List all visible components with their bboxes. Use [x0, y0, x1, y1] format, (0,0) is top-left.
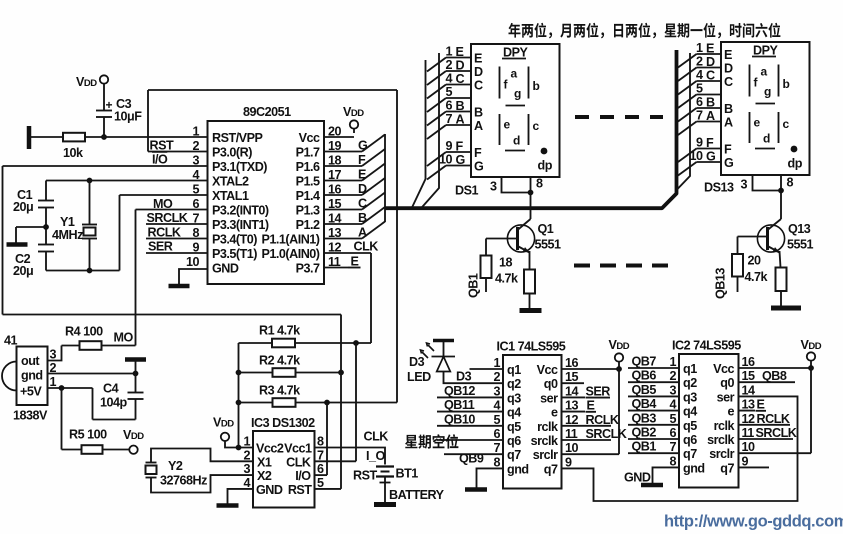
svg-text:G: G — [456, 153, 466, 167]
svg-text:D: D — [706, 55, 715, 69]
svg-text:8: 8 — [192, 226, 199, 240]
svg-text:c: c — [533, 119, 540, 133]
wire RST net vertical — [340, 315, 342, 489]
svg-text:1: 1 — [192, 125, 199, 139]
svg-text:QB12: QB12 — [444, 384, 475, 398]
battery BT1 — [376, 465, 394, 467]
svg-text:e: e — [754, 116, 761, 130]
wire DS1302 pin6 I/O — [315, 474, 328, 476]
svg-text:2: 2 — [669, 369, 676, 383]
svg-text:2: 2 — [243, 448, 250, 462]
transistor Q13 5551 — [757, 225, 784, 252]
wire CLK down to DS1302 pin7 — [355, 343, 357, 461]
svg-text:10: 10 — [565, 441, 579, 455]
svg-text:1: 1 — [669, 355, 676, 369]
svg-text:6: 6 — [669, 426, 676, 440]
terminal bar left — [27, 126, 32, 149]
svg-text:Y2: Y2 — [168, 459, 183, 473]
svg-text:P1.5: P1.5 — [296, 175, 320, 189]
svg-text:QB3: QB3 — [632, 411, 657, 425]
svg-text:P1.2: P1.2 — [296, 218, 320, 232]
resistor R2 4.7k — [236, 370, 242, 376]
svg-text:20μ: 20μ — [13, 200, 33, 214]
svg-text:5551: 5551 — [787, 238, 814, 252]
bus sheaf DS1 — [427, 58, 446, 72]
clock IC3 DS1302 — [253, 431, 315, 508]
wire DS1 pin8 to Q1 — [530, 177, 532, 219]
wire gnd stub — [16, 226, 46, 228]
svg-text:Vcc: Vcc — [299, 131, 320, 145]
svg-text:14: 14 — [565, 384, 579, 398]
svg-text:GND: GND — [256, 483, 283, 497]
wire DS1 pin3 — [502, 177, 531, 193]
svg-text:4: 4 — [243, 476, 250, 490]
svg-text:e: e — [504, 118, 511, 132]
svg-text:P1.7: P1.7 — [296, 146, 320, 160]
wire C1 to C2 — [45, 208, 47, 245]
crystal Y1 4MHz — [89, 181, 91, 225]
shift register IC1 74LS595 — [503, 355, 562, 489]
svg-text:P3.3(INT1): P3.3(INT1) — [212, 218, 269, 232]
resistor R4 100 — [62, 345, 80, 347]
svg-text:E: E — [706, 42, 714, 56]
svg-text:10: 10 — [742, 440, 756, 454]
svg-text:srclr: srclr — [533, 448, 558, 462]
power VDD (MCU pin20) — [324, 136, 354, 138]
svg-text:7: 7 — [669, 440, 676, 454]
svg-text:5: 5 — [317, 476, 324, 490]
svg-text:E: E — [456, 45, 464, 59]
ground (MCU) — [169, 284, 190, 289]
wire IC1 pin7 QB9 — [444, 453, 503, 455]
svg-text:R4 100: R4 100 — [65, 325, 103, 339]
svg-text:3: 3 — [741, 178, 748, 192]
wire Q1 base to R18 — [485, 239, 487, 256]
svg-text:a: a — [511, 67, 518, 81]
ground (C4 top) — [125, 357, 146, 362]
wire DS1302 pin7 CLK — [315, 460, 357, 462]
svg-text:+: + — [106, 98, 113, 112]
wire MCU pin3 (I/O) long — [3, 165, 208, 167]
svg-text:RCLK: RCLK — [148, 226, 181, 240]
svg-text:1: 1 — [243, 435, 250, 449]
wire IC1 pin14 — [562, 396, 586, 398]
svg-text:P3.7: P3.7 — [296, 262, 320, 276]
svg-text:8: 8 — [493, 455, 500, 469]
wire DS13 pin8 to Q13 — [780, 175, 782, 219]
svg-text:4: 4 — [493, 399, 500, 413]
svg-text:GND: GND — [212, 262, 239, 276]
svg-text:P3.1(TXD): P3.1(TXD) — [212, 160, 267, 174]
svg-text:E: E — [474, 52, 482, 66]
svg-text:2: 2 — [445, 58, 452, 72]
svg-text:Q1: Q1 — [538, 222, 554, 236]
svg-text:I_O: I_O — [366, 449, 386, 463]
wire +5V down to R5 — [61, 388, 63, 450]
capacitor C1 20u — [38, 200, 54, 202]
svg-text:QB13: QB13 — [714, 268, 728, 299]
svg-text:q2: q2 — [507, 377, 521, 391]
wire DS13 pin3 — [753, 175, 782, 191]
wire MCU pin4 XTAL2 — [46, 180, 208, 182]
svg-text:Vcc2: Vcc2 — [256, 442, 284, 456]
svg-text:XTAL2: XTAL2 — [212, 175, 249, 189]
svg-text:q3: q3 — [683, 390, 697, 404]
svg-text:I/O: I/O — [152, 153, 168, 167]
svg-text:QB10: QB10 — [444, 412, 475, 426]
svg-text:BT1: BT1 — [396, 467, 419, 481]
svg-text:B: B — [474, 106, 483, 120]
svg-text:5: 5 — [445, 85, 452, 99]
svg-text:VDD: VDD — [343, 105, 364, 119]
svg-text:VDD: VDD — [123, 428, 144, 442]
wire MCU pin12 CLK — [324, 252, 371, 254]
svg-text:ser: ser — [540, 391, 558, 405]
capacitor C3 10uF — [96, 110, 112, 112]
ground (Q1) — [520, 308, 542, 313]
wires MCU P1.7-P1.1 segment outputs — [324, 151, 362, 153]
bus sheaf DS13 — [678, 54, 697, 68]
svg-text:7: 7 — [696, 109, 703, 123]
svg-text:g: g — [764, 85, 771, 99]
svg-text:IC2 74LS595: IC2 74LS595 — [672, 339, 741, 353]
svg-text:QB9: QB9 — [459, 452, 484, 466]
svg-text:MO: MO — [114, 331, 134, 345]
svg-text:QB8: QB8 — [762, 369, 787, 383]
svg-text:9: 9 — [742, 454, 749, 468]
svg-text:ser: ser — [717, 390, 735, 404]
svg-text:DPY: DPY — [503, 46, 528, 60]
ground (DS1302) — [217, 503, 239, 508]
svg-text:QB6: QB6 — [632, 369, 657, 383]
svg-text:4: 4 — [445, 72, 452, 86]
svg-text:q5: q5 — [507, 420, 521, 434]
svg-text:1: 1 — [696, 41, 703, 55]
svg-text:3: 3 — [490, 180, 497, 194]
node XTAL2 junction — [87, 178, 93, 184]
wire RST loop top — [148, 89, 397, 91]
svg-text:89C2051: 89C2051 — [243, 105, 291, 119]
capacitor C2 20u — [38, 244, 54, 246]
svg-text:e: e — [727, 405, 734, 419]
svg-text:q0: q0 — [544, 377, 558, 391]
svg-text:C4: C4 — [103, 382, 119, 396]
wire MCU pin8 — [146, 238, 208, 240]
svg-text:CLK: CLK — [364, 430, 389, 444]
svg-text:B: B — [456, 99, 465, 113]
svg-text:q4: q4 — [683, 405, 697, 419]
svg-text:BATTERY: BATTERY — [389, 488, 445, 502]
svg-text:C: C — [724, 75, 733, 89]
svg-text:RST: RST — [288, 483, 312, 497]
svg-text:e: e — [551, 406, 558, 420]
wire C1 top — [45, 181, 47, 201]
wire IC1 pin16 Vcc — [562, 368, 620, 370]
svg-text:q4: q4 — [507, 406, 521, 420]
svg-text:P1.0(AIN0): P1.0(AIN0) — [262, 247, 320, 261]
node DS1 pin3/8 junction — [528, 190, 534, 196]
svg-text:16: 16 — [742, 355, 756, 369]
svg-text:IC1 74LS595: IC1 74LS595 — [497, 340, 566, 354]
svg-text:QB2: QB2 — [632, 426, 657, 440]
svg-text:R1 4.7k: R1 4.7k — [259, 324, 301, 338]
svg-text:VDD: VDD — [76, 75, 97, 89]
svg-text:P3.4(T0): P3.4(T0) — [212, 233, 257, 247]
svg-text:X2: X2 — [257, 469, 272, 483]
wire IC1 pin15 — [562, 382, 585, 384]
svg-text:2: 2 — [696, 55, 703, 69]
svg-text:SRCLK: SRCLK — [147, 211, 188, 225]
svg-text:Y1: Y1 — [60, 215, 75, 229]
svg-text:q7: q7 — [507, 448, 521, 462]
svg-text:5: 5 — [493, 413, 500, 427]
svg-text:RST: RST — [353, 469, 377, 483]
svg-text:b: b — [533, 79, 540, 93]
svg-text:12: 12 — [742, 412, 756, 426]
svg-text:B: B — [724, 102, 733, 116]
svg-text:3: 3 — [669, 383, 676, 397]
svg-text:1838V: 1838V — [13, 409, 48, 423]
resistor R_E1 (emitter) — [524, 270, 535, 294]
display DS13 (7-segment DPY) — [721, 42, 810, 175]
svg-text:A: A — [456, 113, 465, 127]
node DS13 pin3/8 junction — [778, 188, 784, 194]
svg-text:DS13: DS13 — [704, 181, 734, 195]
resistor R_E13 (emitter) — [776, 268, 787, 292]
wire IC2 pin16 Vcc — [739, 367, 812, 369]
wire MCU pin2 — [148, 151, 208, 153]
wire 1838V pin2 (gnd) — [48, 373, 136, 375]
resistor R5 100 — [62, 449, 82, 451]
bus sheaf (MCU segment bus) — [362, 135, 385, 152]
svg-text:c: c — [783, 117, 790, 131]
svg-text:3: 3 — [49, 348, 56, 362]
svg-text:11: 11 — [565, 427, 578, 441]
svg-text:a: a — [761, 65, 768, 79]
svg-text:E: E — [757, 398, 765, 412]
ground (battery) — [374, 502, 396, 507]
svg-text:C: C — [456, 72, 465, 86]
wire MCU pin11 — [324, 267, 348, 269]
svg-text:4: 4 — [192, 168, 199, 182]
svg-text:20: 20 — [748, 254, 762, 268]
svg-text:C: C — [706, 69, 715, 83]
svg-text:P1.3: P1.3 — [296, 204, 320, 218]
wire IC2 pin8 gnd — [653, 467, 680, 483]
ground (IC2) — [641, 483, 663, 488]
svg-text:q7: q7 — [683, 447, 697, 461]
svg-text:QB4: QB4 — [632, 397, 657, 411]
capacitor C4 104p — [135, 374, 137, 393]
svg-text:D: D — [724, 62, 733, 76]
wire MCU pin9 — [146, 252, 208, 254]
svg-text:10: 10 — [186, 255, 200, 269]
svg-text:41: 41 — [4, 334, 18, 348]
svg-text:gnd: gnd — [21, 369, 43, 383]
svg-text:5: 5 — [696, 82, 703, 96]
svg-text:QB1: QB1 — [632, 440, 657, 454]
svg-text:rclk: rclk — [714, 419, 736, 433]
svg-text:d: d — [513, 134, 520, 148]
svg-text:4.7k: 4.7k — [745, 270, 769, 284]
svg-text:2: 2 — [192, 139, 199, 153]
svg-text:10μF: 10μF — [114, 110, 142, 124]
shift register IC2 74LS595 — [679, 354, 739, 488]
wire R_E1 to ground — [529, 294, 531, 309]
svg-text:6: 6 — [493, 427, 500, 441]
ground (IC1) — [465, 487, 487, 492]
svg-text:3: 3 — [243, 462, 250, 476]
svg-text:5: 5 — [192, 183, 199, 197]
svg-text:q2: q2 — [683, 376, 697, 390]
svg-text:P3.0(R): P3.0(R) — [212, 146, 252, 160]
wire IC2 pin11 — [739, 438, 794, 440]
svg-text:8: 8 — [536, 177, 543, 191]
node crystal bottom junction — [87, 268, 93, 274]
wire DS1302 pin8 Vcc1 — [315, 448, 386, 465]
LED D3 — [433, 339, 454, 342]
svg-text:Q13: Q13 — [788, 222, 811, 236]
wire IC1 pin13 — [562, 411, 586, 413]
svg-text:q7: q7 — [544, 462, 558, 476]
svg-text:D3: D3 — [409, 355, 425, 369]
wire IC2 pin13 — [739, 410, 756, 412]
svg-text:Vcc1: Vcc1 — [284, 442, 312, 456]
resistor R3 4.7k — [236, 400, 242, 406]
wire IC1 pin12 — [562, 425, 612, 427]
svg-text:q1: q1 — [683, 362, 697, 376]
svg-text:SER: SER — [586, 385, 611, 399]
wire left-edge vertical — [2, 166, 4, 315]
svg-text:gnd: gnd — [507, 462, 529, 476]
dashed line (drivers omitted) — [574, 264, 669, 268]
node C1-C2-gnd junction — [43, 224, 49, 230]
svg-text:E: E — [587, 399, 595, 413]
wires IC2 q1-q7 inputs — [628, 367, 679, 369]
svg-text:IC3 DS1302: IC3 DS1302 — [251, 416, 315, 430]
svg-text:9: 9 — [565, 455, 572, 469]
svg-text:18: 18 — [499, 256, 513, 270]
svg-text:8: 8 — [787, 176, 794, 190]
svg-text:XTAL1: XTAL1 — [212, 189, 249, 203]
svg-text:8: 8 — [669, 454, 676, 468]
IR receiver U2 1838V — [2, 362, 17, 391]
wire VDD to IC1 pin10 — [618, 369, 620, 454]
ground (crystal) — [7, 242, 28, 247]
svg-text:GND: GND — [624, 471, 651, 485]
svg-text:A: A — [724, 116, 733, 130]
svg-text:CLK: CLK — [286, 455, 311, 469]
svg-text:RST/VPP: RST/VPP — [212, 131, 262, 145]
svg-text:q7: q7 — [720, 461, 734, 475]
wire RST loop right (to R3) — [396, 90, 398, 403]
wire R18 stub QB1 — [485, 278, 487, 292]
svg-text:http://www.go-gddq.com: http://www.go-gddq.com — [664, 513, 843, 531]
wire VDD to C3 — [103, 84, 105, 110]
wire bottom long horizontal — [3, 314, 342, 316]
svg-text:6: 6 — [317, 462, 324, 476]
svg-text:5551: 5551 — [535, 238, 562, 252]
svg-text:VDD: VDD — [213, 416, 234, 430]
svg-text:6: 6 — [192, 197, 199, 211]
svg-text:dp: dp — [788, 157, 803, 171]
wire I/O down to DS1302 pin6 — [326, 403, 328, 476]
svg-text:dp: dp — [538, 159, 553, 173]
crystal Y2 32768Hz — [151, 449, 253, 463]
svg-text:VDD: VDD — [609, 338, 630, 352]
wire crystal bottom — [46, 270, 120, 272]
svg-text:D: D — [474, 65, 483, 79]
svg-text:P1.1(AIN1): P1.1(AIN1) — [262, 233, 320, 247]
svg-text:F: F — [706, 136, 714, 150]
svg-text:R2 4.7k: R2 4.7k — [259, 354, 301, 368]
resistor 20 4.7k (Q13 base) — [732, 254, 743, 277]
svg-text:4.7k: 4.7k — [495, 272, 519, 286]
wire MCU pin5 XTAL1 — [120, 194, 208, 196]
svg-text:3: 3 — [493, 384, 500, 398]
svg-text:P1.4: P1.4 — [296, 189, 320, 203]
svg-text:D: D — [456, 59, 465, 73]
svg-text:104p: 104p — [100, 396, 128, 410]
wire terminal to R6 — [29, 136, 63, 138]
svg-text:RST: RST — [150, 139, 174, 153]
svg-text:13: 13 — [742, 398, 756, 412]
svg-text:out: out — [21, 354, 40, 368]
svg-text:15: 15 — [565, 370, 579, 384]
svg-text:13: 13 — [565, 399, 579, 413]
svg-text:A: A — [474, 119, 483, 133]
svg-text:srclr: srclr — [709, 447, 734, 461]
svg-text:9: 9 — [192, 241, 199, 255]
svg-text:10k: 10k — [63, 146, 84, 160]
wire right leg to XTAL1 — [119, 195, 121, 271]
wire R_E13 to ground — [780, 291, 782, 306]
svg-text:gnd: gnd — [683, 461, 705, 475]
svg-text:G: G — [724, 156, 734, 170]
svg-text:+5V: +5V — [20, 385, 42, 399]
wire MCU pin7 — [146, 223, 208, 225]
wire DS1302 pin4 GND — [228, 489, 254, 504]
svg-text:1: 1 — [445, 45, 452, 59]
svg-text:QB11: QB11 — [444, 398, 475, 412]
wire 1838V pin1 (+5V) — [48, 387, 93, 389]
svg-text:9: 9 — [696, 136, 703, 150]
node R1-CLK junction — [353, 340, 359, 346]
wire IC2 pin15 QB8 — [739, 381, 796, 383]
svg-text:B: B — [706, 96, 715, 110]
wire 1838V pin3 to R4 — [48, 346, 62, 361]
svg-text:CLK: CLK — [354, 240, 379, 254]
svg-text:P3.2(INT0): P3.2(INT0) — [212, 204, 269, 218]
svg-text:q5: q5 — [683, 419, 697, 433]
wires IC1 q3-q5 inputs — [437, 396, 503, 398]
wires DS1 pin stubs — [446, 57, 471, 59]
svg-text:5: 5 — [669, 412, 676, 426]
label 星期空位 — [405, 434, 458, 449]
svg-text:DS1: DS1 — [455, 184, 478, 198]
svg-text:12: 12 — [565, 413, 579, 427]
svg-text:b: b — [783, 77, 790, 91]
wire VDD to IC2 pin10 — [810, 368, 812, 453]
svg-text:14: 14 — [742, 383, 756, 397]
svg-text:F: F — [474, 146, 482, 160]
wire Q13 emitter — [780, 251, 781, 268]
svg-text:srclk: srclk — [531, 434, 559, 448]
resistor R1 4.7k — [239, 342, 273, 344]
svg-text:C: C — [474, 79, 483, 93]
svg-text:QB5: QB5 — [632, 383, 657, 397]
svg-text:4MHz: 4MHz — [52, 228, 83, 242]
